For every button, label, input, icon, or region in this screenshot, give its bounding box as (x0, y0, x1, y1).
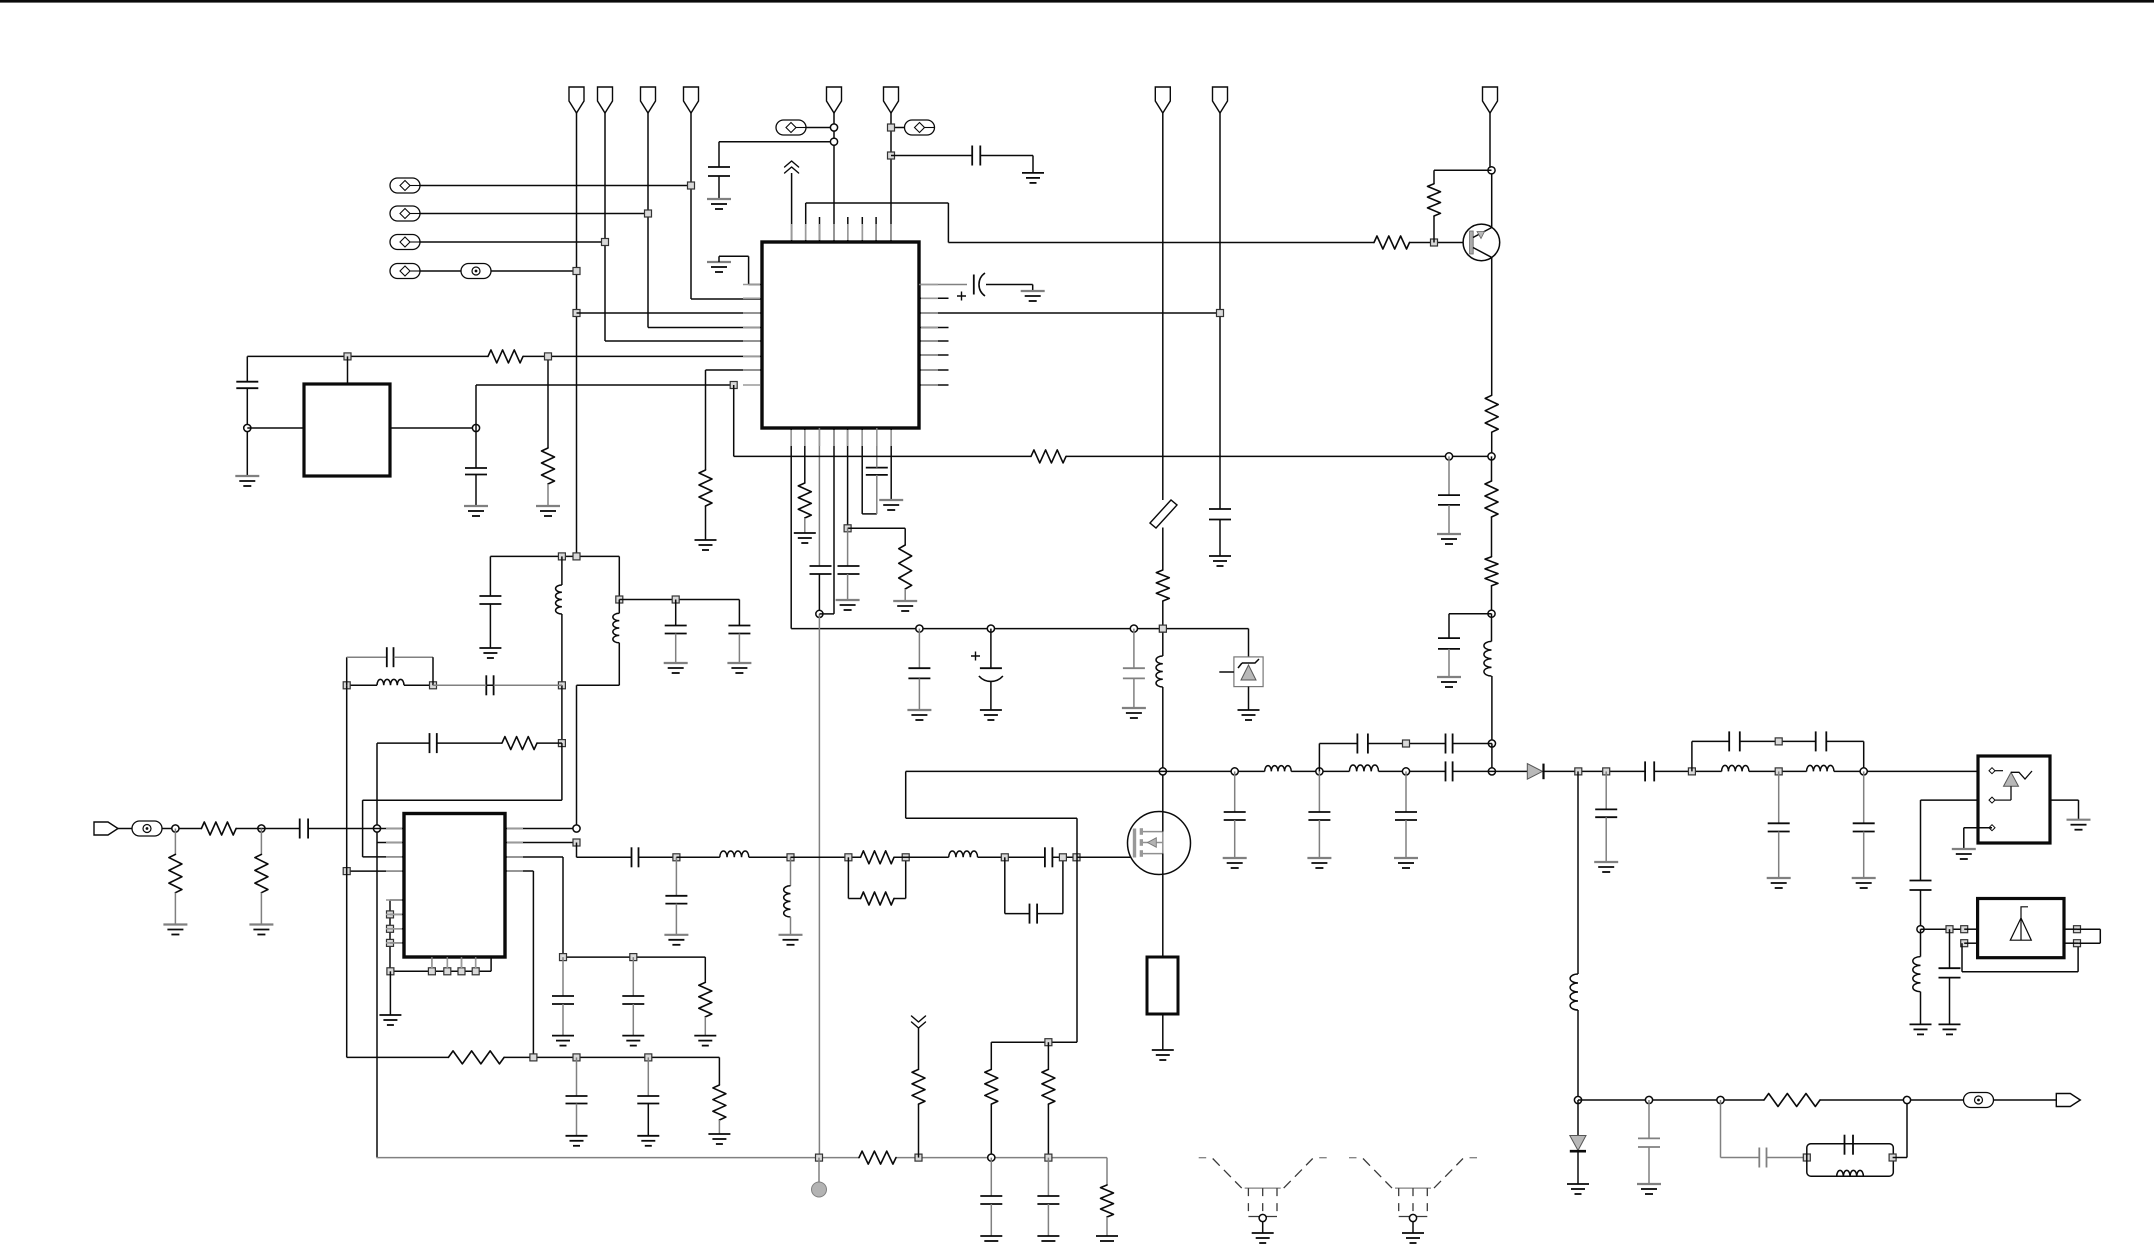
wire left riser (376, 743, 378, 1158)
wire C15 drop (489, 556, 491, 596)
wire P1 net 556 (490, 555, 619, 557)
wire L2 down (1491, 676, 1493, 744)
capacitor C8 (866, 467, 888, 469)
junction 599 (616, 596, 623, 603)
junction P6 C2 (888, 152, 895, 159)
junction input/left riser (373, 825, 380, 832)
capacitor C20 (429, 733, 431, 753)
U1 right stub 385 (919, 384, 949, 386)
wire R3 top (547, 356, 549, 448)
wire Q2 source (1162, 854, 1164, 958)
junction out d (1903, 1096, 1910, 1103)
wire flag P2 down (604, 113, 606, 341)
wire U1 pin805 down (804, 428, 806, 483)
capacitor C41 (1910, 880, 1932, 882)
resistor R21 parallel (847, 857, 849, 898)
junction C41/L12 (1917, 926, 1924, 933)
wire junction385 down (733, 385, 735, 456)
junction 771 d (1402, 768, 1409, 775)
wire R6 gnd (904, 589, 906, 601)
top border bar (0, 0, 2154, 3)
junction out a (1574, 1096, 1581, 1103)
junction out c (1717, 1096, 1724, 1103)
ground B1 (1152, 1049, 1174, 1051)
ground C9 (907, 709, 931, 711)
capacitor C19 series (485, 675, 487, 695)
wire L6-L7 (749, 856, 791, 858)
ground C1 (707, 198, 731, 200)
zener diode D1 in box (1234, 657, 1263, 687)
resistor R20 (861, 851, 894, 864)
net label N3 (390, 235, 420, 250)
gray net dot (818, 1158, 820, 1182)
capacitor C36 series (1644, 761, 1646, 781)
U1 top pin stub 1 (819, 217, 821, 242)
junction R14 (172, 825, 179, 832)
wire row1057 (347, 1056, 449, 1058)
wire C14 gnd (1448, 649, 1450, 677)
ground C27 (664, 934, 688, 936)
resistor R11 (1491, 456, 1493, 481)
wire C3 down (246, 388, 248, 476)
capacitor C43 (1648, 1100, 1650, 1138)
power flag P5 (827, 87, 842, 113)
resistor R19 (718, 1057, 720, 1085)
wire to J2 (1994, 1099, 2057, 1101)
tank box T1 (1807, 1144, 1894, 1177)
wire L9 down (1577, 1010, 1579, 1100)
resistor R1 (1374, 236, 1410, 249)
junction row957 a (560, 954, 567, 961)
ground C7 (836, 599, 860, 601)
ground D3 (1567, 1183, 1589, 1185)
ground C10 (980, 709, 1002, 711)
wire U3 pin1 (1995, 770, 2003, 772)
resistor R25 (859, 1151, 896, 1164)
ground R19 (708, 1133, 730, 1135)
capacitor C9 (918, 629, 920, 669)
capacitor C44 series (1758, 1148, 1760, 1168)
U1 top pin stub 3 (861, 217, 863, 242)
junction L11 out (1860, 768, 1867, 775)
ground R15sh (163, 923, 187, 925)
net label N9 (1964, 1093, 1994, 1108)
ground L7 (779, 934, 803, 936)
inductor L12 (1920, 929, 1922, 956)
junction 685/L3 (558, 682, 565, 689)
wire R10 down (1491, 432, 1493, 456)
ground C47 (1037, 1235, 1059, 1237)
wire U2 pin842 stub (377, 842, 404, 844)
inductor L14 (1265, 766, 1292, 772)
U1 top pin stub 2 (847, 217, 849, 242)
capacitor C32 (1405, 771, 1407, 812)
wire zener feed (1248, 629, 1250, 657)
junction C27 (673, 854, 680, 861)
junction row1057 c (645, 1054, 652, 1061)
resistor R27 rail end (1106, 1158, 1108, 1185)
inductor L2 (1491, 614, 1493, 642)
wire ground rail (377, 1157, 860, 1159)
junction P8 pin313 (1217, 310, 1224, 317)
U2 pin stubs (386, 829, 523, 970)
junction 871 left (343, 868, 350, 875)
wire R13 to L3 (537, 742, 562, 744)
wire N3 to P2 (420, 241, 605, 243)
junction rail d (1045, 1154, 1052, 1161)
wire U2 right pin842 (505, 842, 577, 844)
wire 743 net (377, 742, 430, 744)
ground C24 (566, 1135, 588, 1137)
junction bypass2 left (1688, 768, 1695, 775)
ground C39 (1767, 877, 1791, 879)
U4 crystal symbol (2010, 918, 2031, 940)
wire R12 down (1491, 586, 1493, 614)
inductor L8 (949, 851, 978, 857)
output connector J2 (2056, 1094, 2080, 1107)
wire U2 right pin857 (505, 856, 563, 858)
wire RF 771 main (906, 770, 1265, 772)
polarized capacitor C10 (990, 629, 992, 669)
resistor R14 (201, 822, 236, 835)
junction P3/N2 (645, 210, 652, 217)
net label N5 (461, 264, 491, 279)
capacitor C6 (810, 565, 832, 567)
wire L4 down (618, 643, 620, 686)
junction X1 left (244, 424, 251, 431)
resistor R22 (990, 1042, 992, 1069)
resistor R13 (502, 737, 537, 750)
junction P7 628 (1159, 625, 1166, 632)
wire J1-N8 (118, 828, 132, 830)
wire L9 drop (1577, 771, 1579, 974)
inductor L11 (1807, 765, 1834, 771)
wire X1 right pin (390, 427, 476, 429)
junction L2 RF (1488, 768, 1495, 775)
resistor R15sh (174, 829, 176, 855)
U1 right stub 341 (919, 340, 949, 342)
wire Q2 drain (1162, 813, 1164, 832)
wire U2 right pin828 (505, 828, 577, 830)
resistor R5 (798, 483, 811, 518)
wire U1 pin to Q1 base net (805, 203, 807, 242)
wire C3 top (246, 356, 248, 381)
U4 left pin 2 (1961, 940, 1968, 947)
wire L10-L11 (1749, 770, 1807, 772)
wire C5 to gnd (986, 284, 1033, 286)
wire Q1 collector (1491, 258, 1493, 396)
wire N2 to P3 (420, 213, 648, 215)
U2 bottom pin stubs (431, 957, 433, 971)
wire R15sh gnd (174, 893, 176, 925)
wire 456 net (734, 455, 1031, 457)
transistor Q2 MOSFET (1128, 812, 1191, 875)
net label N1 (390, 178, 420, 193)
wire R9 to base (1433, 216, 1435, 243)
U2 bottom bus (390, 970, 491, 972)
junction X1 right (472, 424, 479, 431)
ground C43 (1637, 1183, 1661, 1185)
resistor R26 (912, 1069, 925, 1104)
capacitor C27 (675, 857, 677, 896)
spare transistor Q4 (DNI) (1349, 1158, 1477, 1217)
inductor L10 (1722, 765, 1749, 771)
wire C2 feed (891, 155, 972, 157)
junction bus 2 (444, 968, 451, 975)
resistor R6 (899, 545, 912, 589)
ground C12 (1209, 555, 1231, 557)
IC U3 (1978, 756, 2050, 843)
capacitor C7 (838, 565, 860, 567)
wire C38 end (1826, 740, 1863, 742)
junction drain net (1159, 768, 1166, 775)
capacitor C46 (990, 1158, 992, 1196)
wire R4 gnd (705, 506, 707, 540)
resistor R12 (1485, 557, 1498, 586)
U1 right stub 298 (919, 297, 949, 299)
junction P6/N7 (888, 124, 895, 131)
wire U3 right (2050, 799, 2079, 801)
inductor L3 (561, 556, 563, 585)
net label N7 (905, 120, 935, 135)
wire R9 top (1434, 169, 1492, 171)
U4 left pin 1 (1961, 926, 1968, 933)
junction U2 pin914 (387, 911, 394, 918)
resistor R7 (1031, 450, 1066, 463)
junction rp842 (573, 839, 580, 846)
wire U2 right pin871 (505, 870, 533, 872)
transistor Q1 PNP (1463, 224, 1500, 261)
ground C22 (552, 1035, 574, 1037)
ground C11 (1122, 707, 1146, 709)
wire D3 gnd (1577, 1151, 1579, 1184)
junction P2/N3 (602, 239, 609, 246)
resistor R24 (1764, 1094, 1820, 1107)
ground C42 (1939, 1023, 1961, 1025)
ground C25 (637, 1135, 659, 1137)
wire zener stub (1219, 671, 1234, 673)
junction C11 (1130, 625, 1137, 632)
wire C37-C38 (1740, 740, 1816, 742)
wire R3 gnd (547, 484, 549, 506)
wire input net (162, 828, 201, 830)
junction D2 out (1575, 768, 1582, 775)
ground C14 (1437, 676, 1461, 678)
junction R3 top (545, 353, 552, 360)
wire C1 down (718, 176, 720, 199)
net label N2 (390, 206, 420, 221)
U4 right pin 1 (2074, 926, 2081, 933)
ground R16sh (249, 923, 273, 925)
inductor L4 (618, 600, 620, 614)
ground C40 (1852, 877, 1876, 879)
capacitor C29 parallel (1004, 857, 1006, 913)
resistor R9 (1428, 184, 1441, 216)
wire flag P4 down (690, 113, 692, 299)
ground R3 (536, 505, 560, 507)
junction R15 (258, 825, 265, 832)
junction 685 mid (430, 682, 437, 689)
U1 right stub 355 (919, 354, 949, 356)
ground C23 (622, 1035, 644, 1037)
wire B1 gnd (1162, 1014, 1164, 1050)
junction rail gray net (816, 1154, 823, 1161)
power flag P1 (569, 87, 584, 113)
junction C28 right (1059, 854, 1066, 861)
U3 detector symbol (2004, 772, 2019, 786)
capacitor C26 series (631, 847, 633, 867)
wire C36 out (1654, 770, 1721, 772)
wire to C21 (236, 828, 300, 830)
wire 743 to U2 pin857 (561, 743, 563, 800)
wire rp857 elbow (576, 843, 578, 858)
wire C12 down (1219, 520, 1221, 557)
junction rp828 (573, 825, 580, 832)
wire left col (346, 685, 348, 1057)
ground C3 (235, 475, 259, 477)
ground R27 (1096, 1235, 1118, 1237)
ground C5 (1021, 290, 1045, 292)
ground R6 (893, 600, 917, 602)
junction L7 (787, 854, 794, 861)
wire U2 left pin871 (347, 870, 404, 872)
wire flag P7 down (VDD to Q2 drain) (1162, 113, 1164, 500)
junction rail chevron (915, 1154, 922, 1161)
ground R5 (794, 532, 816, 534)
capacitor C11 (1133, 629, 1135, 669)
junction P5 C1 (830, 138, 837, 145)
wire X1 left pin (247, 427, 304, 429)
wire N6 to P5 (806, 127, 834, 129)
resistor R4 (699, 470, 712, 506)
junction C10 (987, 625, 994, 632)
IC U4 (1978, 899, 2064, 958)
resistor R17 (704, 957, 706, 982)
junction row1057 b (573, 1054, 580, 1061)
ground C15 (479, 647, 501, 649)
U4 right link (2099, 929, 2101, 943)
junction 743/L3 (558, 740, 565, 747)
capacitor C31 (1318, 771, 1320, 812)
wire U1 pin848 down (847, 428, 849, 528)
junction row1042 (1045, 1039, 1052, 1046)
wire flag P9 down (1489, 113, 1491, 170)
capacitor C35 (1605, 771, 1607, 809)
wire flag P3 down (647, 113, 649, 328)
wire U1 pin834 down (833, 428, 835, 614)
wire U1 pin370 (706, 369, 763, 371)
junction row957 b (630, 954, 637, 961)
capacitor C37 (1728, 731, 1730, 751)
wire flag P6 down (890, 113, 892, 242)
junction 556/P1 (573, 553, 580, 560)
ground C13 (1437, 533, 1461, 535)
wire flag P1 down (576, 113, 578, 556)
wire tank feed (1720, 1100, 1722, 1158)
wire N4 seg (420, 270, 461, 272)
capacitor C40 (1863, 771, 1865, 823)
wire U2 right riser (576, 685, 578, 828)
wire 628 net (791, 628, 1248, 630)
junction P7 coil (1159, 625, 1166, 632)
resistor R3 (542, 448, 555, 484)
wire pin848 to C7 (847, 528, 849, 566)
capacitor C16 (675, 600, 677, 626)
diode D2 (1527, 764, 1542, 780)
wire flag P5 down (833, 113, 835, 242)
parallel capacitor C18 (346, 657, 348, 685)
junction 741 (1403, 740, 1410, 747)
resistor R23 (1047, 1042, 1049, 1069)
ground U2 (379, 1014, 401, 1016)
capacitor C24 (576, 1057, 578, 1096)
U1 top pin stub 4 (875, 217, 877, 242)
U4 under loop (1961, 943, 1963, 972)
ground C17 (727, 662, 751, 664)
wire R6 link (848, 527, 906, 529)
wire R16sh gnd (260, 893, 262, 925)
capacitor C34 (1445, 734, 1447, 754)
wire R5 gnd (804, 518, 806, 533)
wire C26-C27 (639, 856, 677, 858)
wire 556 elbow (618, 556, 620, 599)
wire C6 down (818, 574, 820, 614)
wire tank out (1893, 1157, 1907, 1159)
IC U2 (404, 814, 505, 958)
wire L11 out (1834, 770, 1978, 772)
junction 599/C16 (672, 596, 679, 603)
junction gray net top (816, 610, 823, 617)
spare transistor Q3 (DNI) (1199, 1158, 1327, 1217)
diode D3 shunt (1577, 1100, 1579, 1136)
junction 556/L3 (558, 553, 565, 560)
ground C31 (1307, 857, 1331, 859)
wire flag P8 down (1219, 113, 1221, 509)
junction C9 (916, 625, 923, 632)
polarized capacitor C5 (973, 275, 975, 295)
junction P1 pin line (573, 310, 580, 317)
wire P1 pin line (577, 312, 763, 314)
resistor R2 (488, 350, 523, 363)
bypass row2 (1691, 741, 1693, 771)
capacitor C14 (1438, 637, 1460, 639)
junction bus gnd (387, 968, 394, 975)
junction R20 left (845, 854, 852, 861)
wire C7 gnd (847, 574, 849, 600)
wire L2 to RF (1491, 744, 1493, 772)
wire U3 pin2 net (1921, 799, 1979, 801)
wire R1 to Q1 base (1410, 242, 1471, 244)
wire C21 to U2 (308, 828, 404, 830)
capacitor C47 (1047, 1158, 1049, 1196)
wire row957 (563, 956, 705, 958)
wire X1 right up to U1 (475, 385, 477, 428)
wire C19 leads (433, 684, 486, 686)
ground U1 pin891 (879, 499, 903, 501)
junction X1 top (344, 353, 351, 360)
wire U1 pin819 down (818, 428, 820, 566)
U1 pin stubs (743, 224, 938, 446)
net stub chevron (912, 1022, 926, 1028)
wire U1 pin891 down (890, 428, 892, 500)
wire C33-C34 (1368, 743, 1446, 745)
junction out b (1645, 1096, 1652, 1103)
inductor L15 (1349, 765, 1378, 771)
junction 771 c (1316, 768, 1323, 775)
junction 685 left (343, 682, 350, 689)
junction 456/C13 (1445, 453, 1452, 460)
ground G3 step (707, 261, 731, 263)
